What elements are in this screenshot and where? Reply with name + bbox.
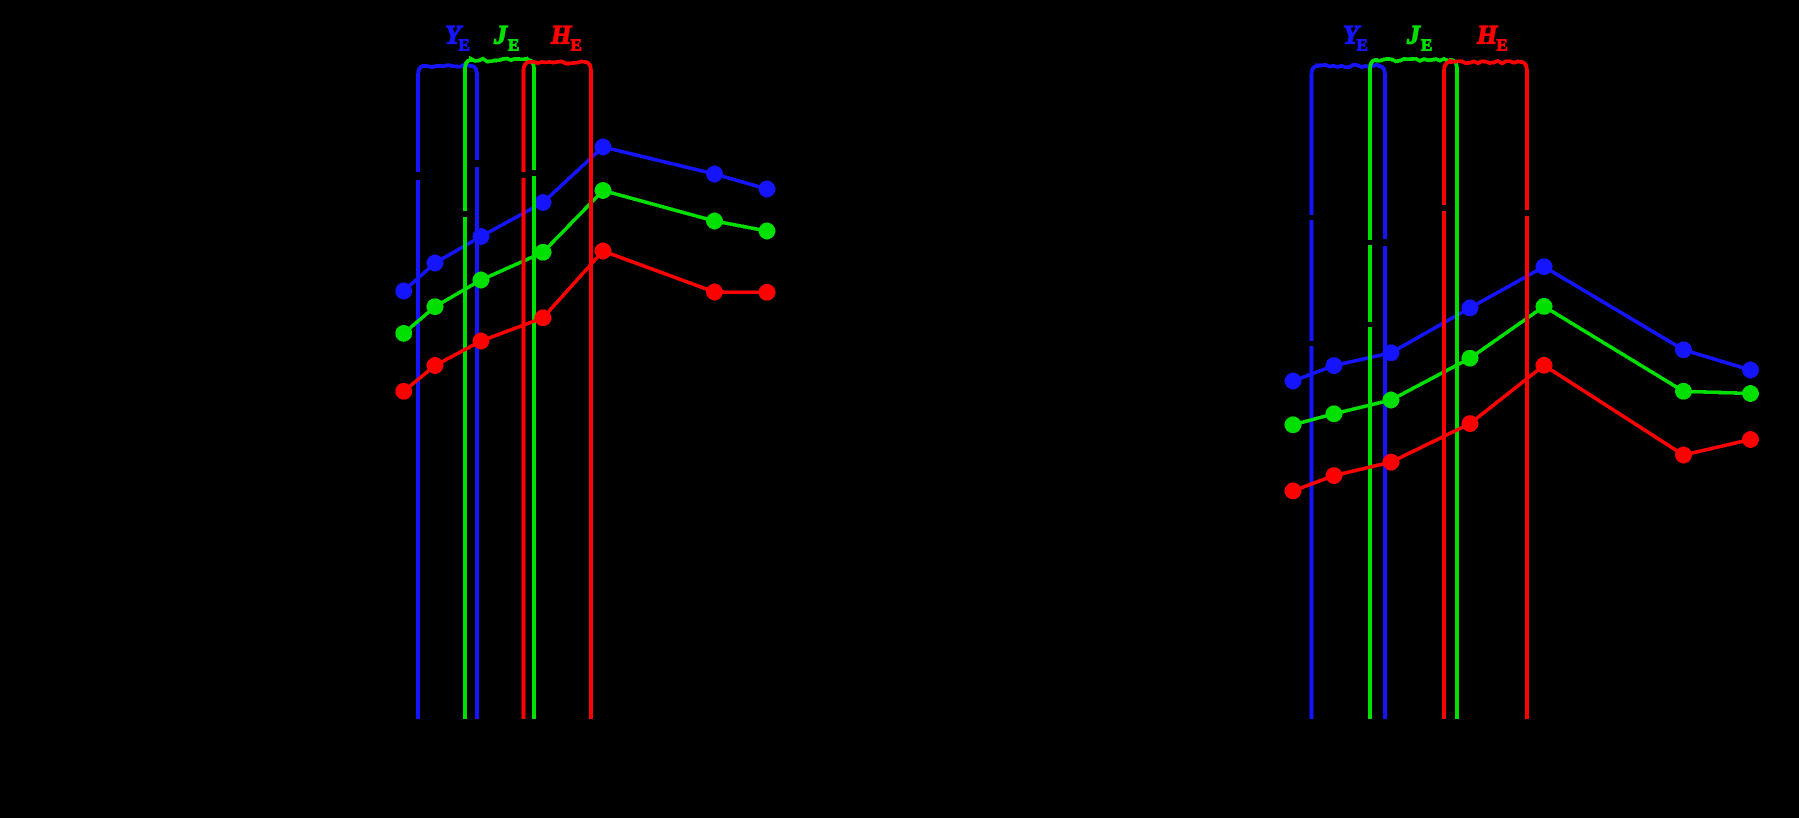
svg-text:E: E [1357,36,1368,55]
svg-text:E: E [1497,36,1508,55]
svg-text:E: E [1421,36,1432,55]
svg-text:H: H [1476,21,1498,50]
svg-text:E: E [508,36,519,55]
svg-text:J: J [1406,21,1421,50]
svg-text:E: E [459,36,470,55]
svg-text:H: H [550,21,572,50]
svg-text:E: E [571,36,582,55]
svg-text:J: J [493,21,508,50]
